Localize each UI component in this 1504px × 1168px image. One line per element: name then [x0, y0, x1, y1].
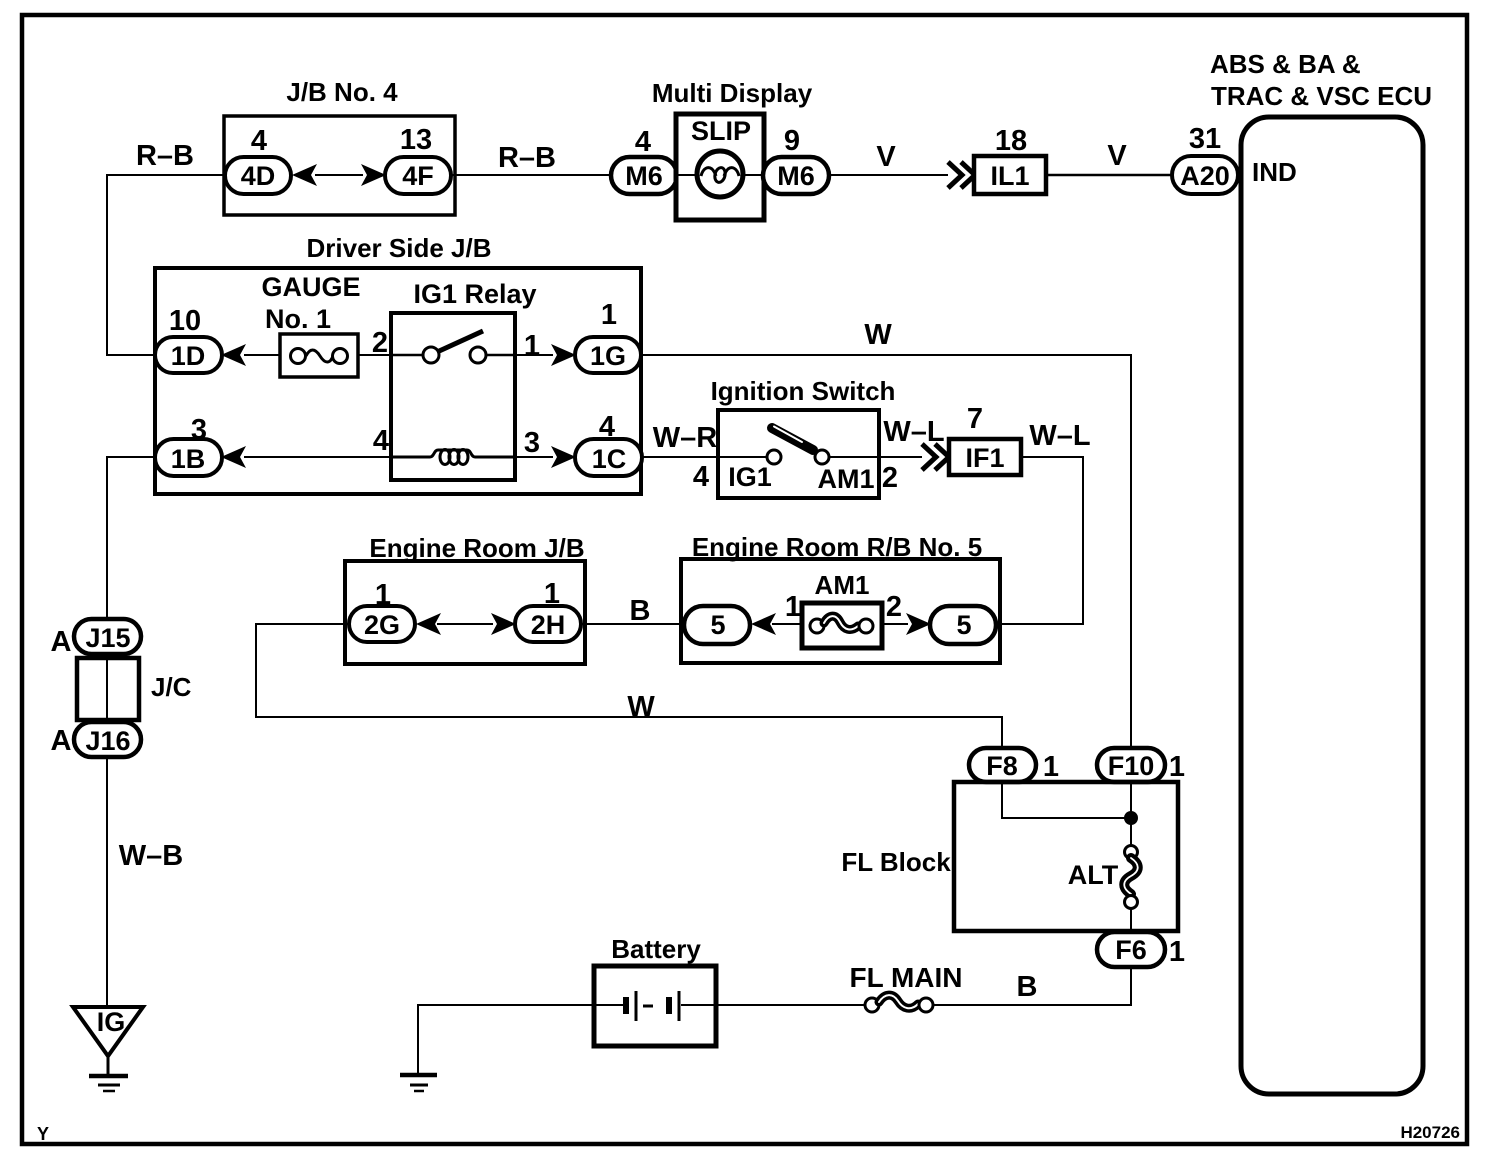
svg-text:W: W — [627, 691, 655, 723]
arrowhead into 2H — [491, 613, 516, 635]
svg-text:5: 5 — [956, 610, 971, 640]
SLIP indicator lamp — [697, 151, 743, 197]
svg-text:Engine Room J/B: Engine Room J/B — [369, 533, 584, 563]
arrowhead into 1D — [221, 344, 246, 366]
fuse element — [291, 349, 306, 364]
inline connector chevrons at IL1 — [948, 162, 975, 188]
wire 5 to AM1 fuse — [772, 623, 804, 625]
svg-text:9: 9 — [784, 125, 800, 157]
wire through J/C — [106, 654, 108, 722]
svg-text:J/C: J/C — [151, 672, 192, 702]
wire W from 1G to right column — [641, 355, 1131, 748]
svg-text:1: 1 — [524, 330, 540, 362]
svg-text:1: 1 — [601, 299, 617, 331]
svg-text:7: 7 — [967, 403, 983, 435]
arrowhead into 5 left — [751, 613, 776, 635]
svg-text:TRAC & VSC ECU: TRAC & VSC ECU — [1211, 81, 1432, 111]
svg-text:J15: J15 — [85, 623, 130, 653]
svg-text:W–L: W–L — [883, 416, 944, 448]
svg-text:1D: 1D — [171, 341, 206, 371]
wire R-B from 4D to node at left, down to 1D — [107, 175, 225, 355]
svg-text:Y: Y — [37, 1124, 49, 1144]
Engine Room R/B No. 5 box — [681, 559, 1000, 663]
svg-text:M6: M6 — [777, 161, 815, 191]
Engine Room J/B box — [345, 561, 585, 664]
connector F8 — [969, 748, 1036, 782]
svg-text:Engine Room R/B No. 5: Engine Room R/B No. 5 — [692, 532, 982, 562]
svg-text:1B: 1B — [171, 444, 206, 474]
ignition switch blade — [772, 428, 813, 450]
wire B from 2H to R/B No.5 — [581, 623, 686, 625]
arrowhead into 4F — [361, 164, 386, 186]
wire from F10 down — [1130, 782, 1132, 846]
svg-text:F8: F8 — [986, 751, 1018, 781]
wire 4D to 4F — [315, 174, 363, 176]
ground IG triangle — [73, 1007, 143, 1056]
wire B from FL MAIN to F6 — [933, 967, 1131, 1005]
svg-text:A20: A20 — [1180, 161, 1230, 191]
svg-text:W–R: W–R — [653, 422, 718, 454]
svg-text:W–B: W–B — [119, 840, 183, 872]
fusible link AM1 element — [810, 619, 824, 633]
svg-text:18: 18 — [995, 125, 1027, 157]
wire battery to FL MAIN — [716, 1004, 866, 1006]
inline connector chevrons at IF1 — [922, 444, 949, 470]
wire R-B from 4F to M6 — [451, 174, 613, 176]
wire 2G to 2H — [437, 623, 493, 625]
connector M6 (left of multi display) — [611, 157, 677, 194]
svg-text:2H: 2H — [531, 610, 566, 640]
fuse AM1 box — [802, 603, 882, 648]
svg-text:V: V — [1107, 140, 1127, 172]
junction block J/B No. 4 — [224, 116, 455, 215]
svg-text:ABS & BA &: ABS & BA & — [1210, 49, 1361, 79]
connector F6 — [1097, 932, 1165, 967]
svg-text:W: W — [864, 319, 892, 351]
svg-text:2: 2 — [886, 591, 902, 623]
svg-text:10: 10 — [169, 305, 201, 337]
svg-text:Driver Side J/B: Driver Side J/B — [307, 233, 492, 263]
ground bars — [89, 1074, 128, 1079]
svg-text:A: A — [51, 725, 72, 757]
fuse GAUGE No.1 box — [280, 334, 358, 377]
wire V from M6 to IL1 — [829, 174, 948, 176]
svg-text:4: 4 — [635, 126, 651, 158]
svg-text:IND: IND — [1252, 157, 1297, 187]
svg-text:GAUGE: GAUGE — [261, 272, 360, 302]
svg-text:A: A — [51, 626, 72, 658]
connector IF1 — [949, 439, 1021, 475]
svg-text:H20726: H20726 — [1400, 1123, 1460, 1142]
svg-text:AM1: AM1 — [815, 570, 870, 600]
svg-text:1: 1 — [1169, 751, 1185, 783]
svg-text:F10: F10 — [1108, 751, 1155, 781]
svg-text:R–B: R–B — [498, 142, 556, 174]
arrowhead into 4D — [292, 164, 317, 186]
ground stem — [107, 1056, 110, 1075]
svg-text:AM1: AM1 — [817, 464, 874, 494]
fusible link FL MAIN element — [865, 998, 879, 1012]
connector 1G — [575, 337, 641, 373]
FL Block box — [954, 782, 1178, 931]
svg-text:SLIP: SLIP — [691, 116, 751, 146]
connector 5 (left) — [684, 606, 750, 644]
svg-text:Battery: Battery — [611, 934, 701, 964]
svg-text:3: 3 — [524, 427, 540, 459]
svg-text:B: B — [630, 595, 651, 627]
svg-text:1C: 1C — [592, 444, 627, 474]
connector 1C — [575, 439, 642, 476]
arrowhead into 1G — [551, 344, 576, 366]
svg-text:1: 1 — [1169, 936, 1185, 968]
connector A20 — [1172, 156, 1238, 194]
connector J16 — [74, 722, 141, 757]
arrowhead into 2G — [416, 613, 441, 635]
wire 1D to fuse — [244, 354, 282, 356]
svg-text:4: 4 — [693, 461, 709, 493]
wire into lamp — [677, 174, 700, 176]
svg-text:W–L: W–L — [1029, 420, 1090, 452]
relay switch contacts — [391, 354, 423, 357]
battery cell symbol — [594, 1004, 624, 1006]
relay coil — [391, 450, 515, 457]
connector 2H — [515, 606, 581, 642]
svg-text:4: 4 — [599, 411, 615, 443]
svg-text:M6: M6 — [625, 161, 663, 191]
svg-text:IL1: IL1 — [990, 161, 1029, 191]
connector 2G — [349, 606, 415, 642]
ignition switch contacts — [718, 456, 767, 458]
svg-text:IG: IG — [97, 1007, 126, 1037]
svg-text:13: 13 — [400, 124, 432, 156]
arrowhead into 5 right — [906, 613, 931, 635]
fusible link ALT element — [1125, 846, 1138, 859]
Ignition Switch box — [718, 410, 879, 498]
wire W-R from 1C to ignition switch — [642, 456, 720, 458]
wire from F8 to junction — [1002, 782, 1131, 818]
connector 5 (right) — [930, 606, 996, 644]
chassis ground bars — [400, 1073, 437, 1078]
connector J15 — [74, 619, 141, 654]
arrowhead into 1C — [551, 446, 576, 468]
wire W-L from IF1 down to engine room R/B — [998, 457, 1083, 624]
svg-text:1: 1 — [785, 591, 801, 623]
wire battery to chassis ground — [418, 1005, 594, 1074]
wire relay to 1G — [515, 354, 553, 356]
Multi Display component box — [676, 114, 764, 220]
svg-text:4D: 4D — [241, 161, 276, 191]
svg-text:2: 2 — [372, 327, 388, 359]
relay IG1 box — [391, 313, 515, 480]
svg-text:4F: 4F — [402, 161, 434, 191]
svg-text:2G: 2G — [364, 610, 400, 640]
ABS & BA & TRAC & VSC ECU box — [1241, 117, 1423, 1094]
svg-text:B: B — [1017, 971, 1038, 1003]
svg-text:5: 5 — [710, 610, 725, 640]
svg-text:2: 2 — [882, 462, 898, 494]
wire W-L from ignition switch — [879, 456, 922, 458]
connector 4F — [385, 157, 451, 194]
svg-text:FL Block: FL Block — [841, 847, 951, 877]
wire 1B to relay coil — [244, 456, 393, 458]
connector 1D — [155, 337, 222, 373]
svg-text:31: 31 — [1189, 123, 1221, 155]
svg-text:V: V — [876, 141, 896, 173]
svg-text:R–B: R–B — [136, 140, 194, 172]
connector 4D — [225, 157, 291, 194]
Driver Side J/B box — [155, 268, 641, 494]
svg-text:FL MAIN: FL MAIN — [849, 962, 962, 993]
svg-text:F6: F6 — [1115, 935, 1147, 965]
relay switch blade — [437, 331, 483, 352]
wire W-B from J16 to ground — [106, 757, 108, 1007]
wire relay to 1C — [515, 456, 553, 458]
svg-text:IF1: IF1 — [965, 443, 1004, 473]
wire ALT to F6 — [1130, 908, 1132, 933]
svg-text:1G: 1G — [590, 341, 626, 371]
wire V from IL1 to A20 — [1046, 174, 1172, 177]
arrowhead into 1B — [221, 446, 246, 468]
svg-text:IG1: IG1 — [728, 462, 772, 492]
wire AM1 to 5 right — [882, 623, 908, 625]
svg-text:J16: J16 — [85, 726, 130, 756]
svg-text:Multi Display: Multi Display — [652, 78, 813, 108]
svg-text:ALT: ALT — [1068, 860, 1119, 890]
svg-text:No. 1: No. 1 — [265, 304, 331, 334]
connector F10 — [1097, 748, 1165, 782]
svg-text:J/B No. 4: J/B No. 4 — [286, 77, 398, 107]
svg-text:4: 4 — [373, 425, 389, 457]
wire W from 2G around to F8 — [256, 624, 1002, 748]
junction node dot — [1124, 811, 1138, 825]
Battery box — [594, 966, 716, 1046]
connector 1B — [155, 439, 222, 476]
svg-text:IG1 Relay: IG1 Relay — [413, 279, 536, 309]
wire from 1B to left column down to J15 — [107, 457, 155, 619]
junction connector J/C box — [77, 658, 139, 720]
connector M6 (right of multi display) — [763, 157, 829, 194]
wire fuse to relay — [358, 354, 393, 356]
svg-text:1: 1 — [1043, 751, 1059, 783]
svg-text:Ignition Switch: Ignition Switch — [711, 376, 896, 406]
connector IL1 — [974, 156, 1046, 194]
svg-text:4: 4 — [251, 125, 267, 157]
